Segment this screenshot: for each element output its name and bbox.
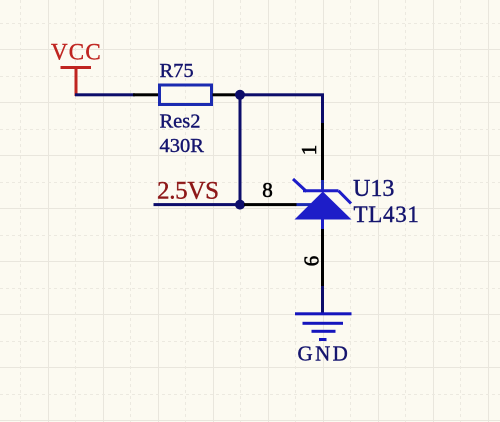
U13 pin 6: [321, 219, 324, 286]
junction node A: [235, 90, 245, 100]
resistor R75: [160, 85, 212, 105]
svg-text:U13: U13: [353, 176, 394, 202]
wire node A to node B: [239, 94, 242, 205]
U13 pin 1: [321, 123, 324, 191]
wire VCC to R75: [75, 93, 135, 96]
svg-text:2.5VS: 2.5VS: [157, 177, 219, 204]
wire pin 6 to ground: [321, 286, 324, 315]
svg-text:TL431: TL431: [354, 202, 420, 227]
svg-text:GND: GND: [298, 342, 351, 366]
resistor R75 pin 2: [213, 93, 237, 96]
svg-text:6: 6: [300, 256, 324, 267]
svg-text:Res2: Res2: [160, 111, 201, 133]
ground symbol: [295, 312, 352, 341]
svg-text:8: 8: [262, 178, 273, 202]
resistor R75 pin 1: [133, 93, 159, 96]
wire net 2.5VS: [154, 203, 241, 206]
U13 pin 8: [244, 203, 311, 206]
svg-text:R75: R75: [160, 60, 194, 82]
wire corner down to pin 1: [321, 94, 324, 123]
svg-text:1: 1: [297, 145, 321, 156]
wire node A to top corner: [240, 93, 324, 96]
svg-text:VCC: VCC: [51, 40, 102, 65]
power port VCC: [61, 66, 92, 96]
junction node B: [235, 200, 245, 210]
op-amp U13 TL431 symbol: [293, 179, 352, 220]
svg-text:430R: 430R: [160, 135, 205, 157]
